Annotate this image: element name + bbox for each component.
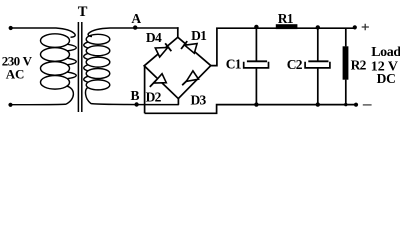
- svg-text:D3: D3: [191, 93, 207, 108]
- svg-text:Load: Load: [371, 45, 400, 60]
- svg-text:R1: R1: [278, 11, 294, 26]
- svg-text:D1: D1: [191, 28, 207, 43]
- svg-text:A: A: [131, 11, 141, 26]
- svg-text:C1: C1: [226, 57, 242, 72]
- svg-text:D4: D4: [146, 30, 162, 45]
- svg-text:C2: C2: [287, 57, 303, 72]
- svg-text:D2: D2: [146, 90, 162, 105]
- svg-text:T: T: [78, 4, 88, 20]
- svg-text:AC: AC: [6, 66, 25, 81]
- svg-text:DC: DC: [377, 71, 396, 86]
- svg-text:R2: R2: [351, 58, 367, 73]
- svg-text:B: B: [131, 88, 140, 103]
